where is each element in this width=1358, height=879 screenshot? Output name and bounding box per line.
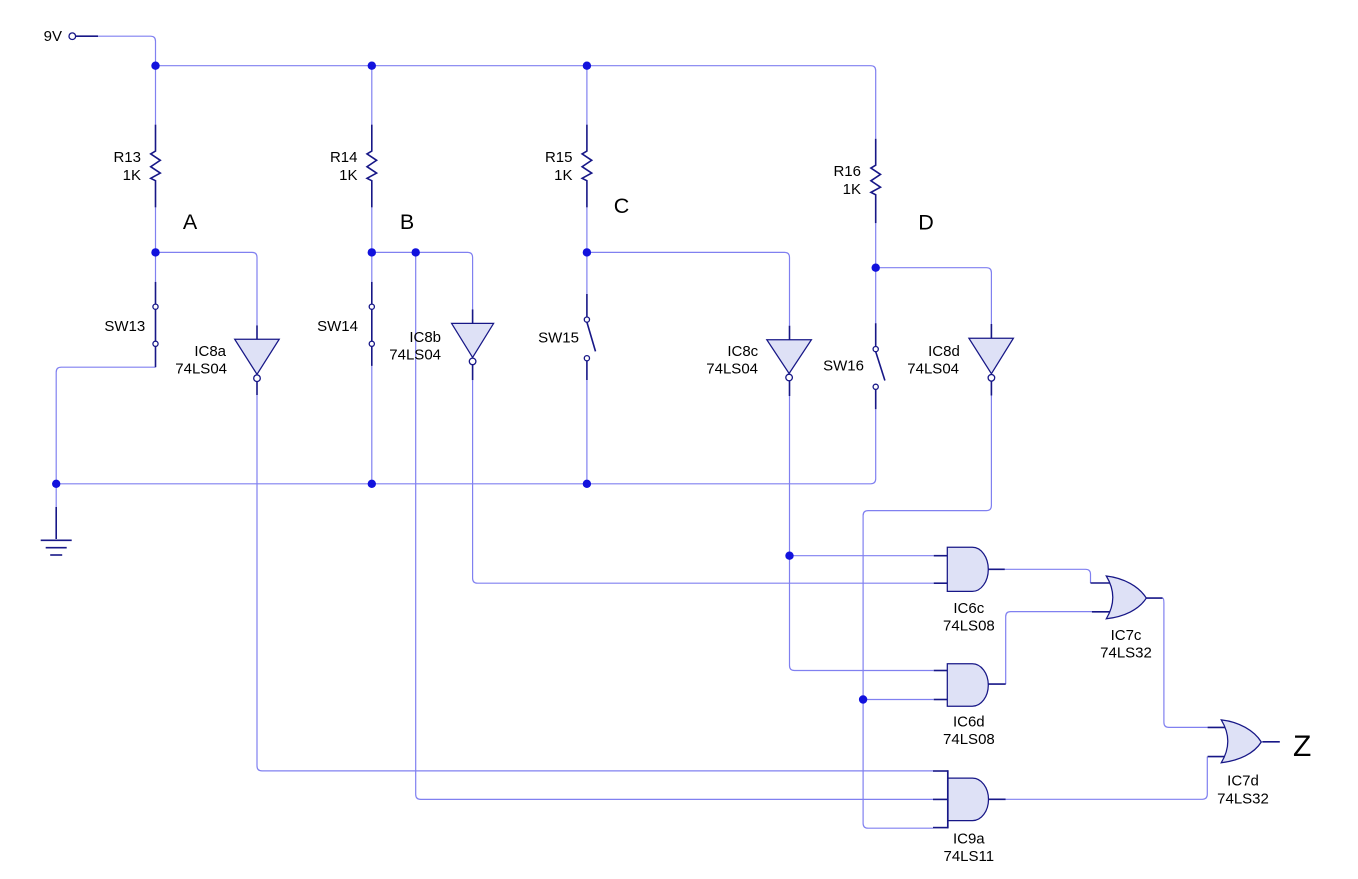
svg-text:D: D — [918, 211, 934, 235]
svg-text:A: A — [183, 210, 198, 234]
resistor R15 — [582, 125, 592, 208]
wire node D to IC8d input — [876, 268, 992, 324]
AND gate body IC6d — [947, 664, 988, 707]
IC8c output lead — [789, 381, 791, 396]
wire IC6d output up to IC7c input 2 — [1006, 612, 1092, 685]
wire IC8b output down to IC6c input 2 — [473, 380, 934, 583]
IC6d output stub — [988, 683, 1005, 685]
inverter body IC8c — [767, 340, 812, 374]
IC7d output stub — [1262, 741, 1280, 743]
wire node B to IC8b input — [372, 252, 473, 309]
wire node C to IC8c input — [587, 252, 790, 325]
IC9a output stub — [989, 798, 1006, 800]
wire junction down to IC6d input 1 — [790, 556, 934, 671]
junction top bus at R13 — [151, 61, 159, 69]
IC8b output lead — [472, 365, 474, 380]
svg-text:74LS04: 74LS04 — [706, 361, 758, 378]
switch SW15 contact circles — [584, 317, 589, 322]
inverter bubble IC8a — [254, 375, 261, 382]
wire SW13 top — [155, 252, 157, 282]
svg-text:B: B — [400, 210, 414, 234]
inverter bubble IC8b — [469, 358, 476, 365]
node D junction — [872, 264, 880, 272]
svg-text:R13: R13 — [113, 149, 141, 166]
inverter body IC8d — [969, 338, 1014, 374]
IC8a input lead — [256, 325, 258, 339]
svg-text:74LS32: 74LS32 — [1100, 645, 1152, 662]
wire R13 lower to node A — [155, 207, 157, 252]
IC7c input stubs — [1091, 582, 1115, 584]
resistor R16 — [871, 139, 881, 223]
wire top power bus — [156, 66, 876, 139]
svg-text:IC7c: IC7c — [1111, 627, 1142, 644]
svg-text:74LS04: 74LS04 — [389, 347, 441, 364]
inverter body IC8b — [452, 323, 494, 357]
wire R13 upper — [155, 66, 157, 125]
AND gate body IC6c — [947, 547, 988, 591]
node B junction — [368, 248, 376, 256]
wire junction D-bar to IC6d input 2 — [863, 699, 933, 701]
junction C-bar to AND gates — [785, 552, 793, 560]
OR gate body IC7c — [1106, 576, 1146, 619]
9V terminal circle — [69, 33, 76, 40]
IC6d input stubs — [934, 670, 948, 672]
switch SW15 leads and open blade — [586, 294, 588, 317]
svg-text:IC8d: IC8d — [928, 343, 960, 360]
svg-text:1K: 1K — [554, 167, 572, 184]
switch SW14 leads and closed blade — [371, 282, 373, 304]
wire IC7c output down to IC7d input 1 — [1163, 598, 1208, 727]
9V terminal lead — [76, 35, 98, 37]
wire SW16 top — [875, 268, 877, 324]
wire junction to IC6c input 1 — [790, 555, 934, 557]
IC6c input stubs — [934, 555, 948, 557]
node B branch junction — [412, 248, 420, 256]
IC8d output lead — [990, 381, 992, 395]
wire node A to IC8a input — [156, 252, 258, 325]
svg-text:74LS04: 74LS04 — [175, 361, 227, 378]
wire IC9a output to IC7d input 2 — [1006, 757, 1208, 800]
svg-text:IC8c: IC8c — [727, 343, 758, 360]
junction ground rail left — [52, 480, 60, 488]
svg-text:C: C — [614, 194, 630, 218]
IC8b input lead — [472, 309, 474, 323]
switch SW16 leads and open blade — [875, 323, 877, 346]
svg-text:Z: Z — [1293, 730, 1311, 763]
svg-text:1K: 1K — [339, 167, 357, 184]
inverter bubble IC8d — [988, 375, 995, 382]
node A junction — [151, 248, 159, 256]
junction top bus at R14 — [368, 61, 376, 69]
svg-text:1K: 1K — [123, 167, 141, 184]
resistor R14 — [367, 125, 377, 208]
svg-text:74LS32: 74LS32 — [1217, 790, 1269, 807]
switch SW16 contact circles — [873, 347, 878, 352]
IC9a left edge line — [947, 770, 949, 828]
IC7c output stub — [1146, 597, 1162, 599]
wire bottom ground bus — [56, 409, 876, 484]
svg-text:1K: 1K — [843, 181, 861, 198]
wire IC8a output down to IC9a top input — [257, 395, 933, 771]
svg-text:IC7d: IC7d — [1227, 773, 1259, 790]
AND gate body IC9a (3-input) — [948, 778, 989, 821]
svg-text:74LS04: 74LS04 — [907, 360, 959, 377]
wire 9V to top bus — [98, 36, 156, 65]
wire IC8c output down to junction — [789, 396, 791, 556]
IC8a output lead — [256, 382, 258, 395]
wire SW15 top — [586, 252, 588, 294]
resistor R13 — [151, 125, 161, 208]
wire R15 upper — [586, 66, 588, 125]
wire R14 lower to node B — [371, 207, 373, 252]
svg-text:SW15: SW15 — [538, 330, 579, 347]
svg-text:IC8b: IC8b — [409, 329, 441, 346]
switch SW14 contact circles — [369, 304, 374, 309]
ground symbol — [55, 507, 57, 539]
wire R15 lower to node C — [586, 207, 588, 252]
IC8c input lead — [789, 326, 791, 340]
node C junction — [583, 248, 591, 256]
wire SW15 bottom to bus — [586, 380, 588, 484]
junction D-bar to AND gates — [859, 695, 867, 703]
svg-text:SW16: SW16 — [823, 358, 864, 375]
op-amp-style inverter body IC8a — [235, 339, 280, 374]
svg-text:IC8a: IC8a — [194, 343, 226, 360]
wire SW13 bottom to ground rail — [56, 367, 155, 484]
wire R14 upper — [371, 66, 373, 125]
switch SW13 leads and closed blade — [155, 282, 157, 304]
svg-text:74LS08: 74LS08 — [943, 731, 995, 748]
svg-text:IC6d: IC6d — [953, 714, 985, 731]
wire ground stem — [55, 484, 57, 507]
junction bus at SW14 — [368, 480, 376, 488]
inverter bubble IC8c — [786, 374, 793, 381]
IC8d input lead — [990, 324, 992, 338]
svg-text:74LS11: 74LS11 — [943, 848, 994, 865]
wire IC8d output down-left-down to IC9a bottom input — [863, 396, 991, 829]
svg-text:R16: R16 — [833, 163, 861, 180]
svg-text:R14: R14 — [330, 149, 358, 166]
wire IC6c output to IC7c input 1 — [1005, 569, 1091, 583]
IC6c output stub — [988, 568, 1005, 570]
switch SW13 contact circles — [153, 304, 158, 309]
IC9a input stubs — [933, 770, 948, 772]
svg-text:SW13: SW13 — [104, 318, 145, 335]
svg-text:IC9a: IC9a — [953, 830, 985, 847]
svg-text:R15: R15 — [545, 149, 573, 166]
wire node B down to IC9a mid input — [416, 252, 933, 799]
svg-text:SW14: SW14 — [317, 318, 358, 335]
svg-text:IC6c: IC6c — [953, 600, 984, 617]
wire SW14 top — [371, 252, 373, 282]
wire SW14 bottom to bus — [371, 366, 373, 484]
OR gate body IC7d — [1221, 720, 1261, 763]
junction bus at SW15 — [583, 480, 591, 488]
IC7d input stubs — [1208, 726, 1229, 728]
junction top bus at R15 — [583, 61, 591, 69]
svg-text:9V: 9V — [44, 28, 62, 45]
svg-text:74LS08: 74LS08 — [943, 618, 995, 635]
wire R16 lower to node D — [875, 223, 877, 268]
